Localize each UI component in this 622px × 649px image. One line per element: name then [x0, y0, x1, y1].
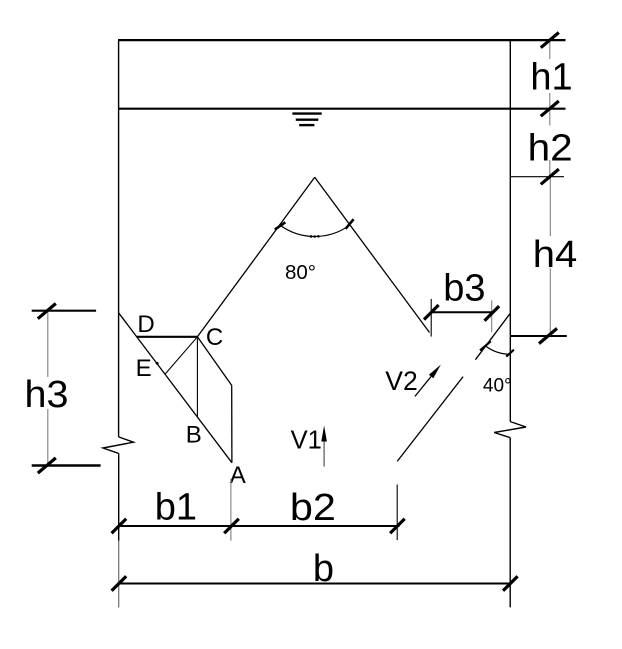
water surface symbol bar 2 — [296, 118, 319, 120]
arc 40 tick lower — [506, 350, 514, 357]
angle arc 40 deg — [486, 346, 510, 354]
velocity arrow V1 shaft — [323, 440, 325, 467]
svg-text:b1: b1 — [155, 486, 197, 528]
b3 left extension line — [430, 299, 432, 337]
svg-text:b2: b2 — [290, 487, 336, 529]
left wall lowest extension (grey) — [118, 541, 120, 608]
dimension line h3 (lower part) — [47, 409, 49, 465]
dimension line h1 (upper part) — [549, 40, 551, 59]
arc dots — [310, 235, 313, 238]
dimension line h3 (upper part) — [47, 311, 49, 377]
svg-text:A: A — [230, 462, 246, 489]
arc tick left — [275, 222, 286, 229]
dimension line b — [119, 583, 510, 585]
velocity arrow V2 head — [429, 365, 441, 379]
svg-text:C: C — [206, 324, 223, 351]
level line at crest height (h4 bottom boundary) — [510, 335, 567, 337]
tank top line — [118, 39, 566, 41]
line C-B — [196, 337, 198, 417]
crest line D-C — [137, 336, 198, 338]
right slope lower segment — [397, 377, 463, 462]
svg-text:h3: h3 — [25, 374, 69, 416]
tick at b1-b2 joint — [224, 519, 239, 534]
dimension line h1-h2 (mid part) — [549, 93, 551, 126]
tick at water level — [541, 101, 559, 116]
line C-E — [165, 337, 197, 374]
dimension line h2 (lower part) — [549, 160, 551, 177]
svg-text:V1: V1 — [291, 427, 322, 455]
arc 40 tick upper — [480, 341, 491, 350]
tick at b right — [503, 576, 518, 591]
svg-text:h2: h2 — [528, 127, 573, 169]
right wall lower extension — [509, 438, 511, 608]
water surface symbol bar 1 — [292, 112, 321, 114]
svg-text:E: E — [136, 355, 152, 382]
arc tick right — [346, 219, 354, 229]
tick at h3 bottom — [38, 458, 56, 473]
svg-text:h1: h1 — [530, 56, 572, 98]
right wall break symbol — [494, 422, 526, 438]
tick at b2 right — [390, 519, 405, 534]
tick at b3 left — [424, 305, 439, 320]
left slope line D-E-B-A — [119, 313, 232, 463]
dimension line b1-b2 — [119, 525, 400, 527]
tick at b1 left — [112, 519, 127, 534]
tick at b3 right — [485, 306, 500, 321]
dimension line h4 (lower part) — [549, 268, 551, 336]
svg-text:40°: 40° — [483, 376, 512, 397]
tick at crest level — [539, 328, 557, 343]
b3 right extension line — [491, 300, 493, 332]
tick at top line level — [541, 33, 559, 48]
h3 bottom boundary line — [32, 464, 101, 466]
notch apex right side (apex to V bottom) — [315, 177, 430, 332]
line C to plate corner — [197, 337, 231, 386]
water surface line — [118, 108, 566, 110]
svg-text:h4: h4 — [533, 234, 578, 276]
right slope upper segment — [475, 313, 510, 360]
svg-text:B: B — [186, 421, 202, 448]
angle arc 80 deg — [280, 225, 350, 237]
svg-text:b3: b3 — [443, 268, 485, 310]
extension line below A — [230, 479, 232, 541]
left wall upper — [118, 40, 120, 437]
svg-text:D: D — [137, 311, 154, 338]
svg-text:V2: V2 — [385, 366, 417, 396]
svg-text:b: b — [313, 548, 334, 590]
left wall lower extension — [118, 453, 120, 540]
tick at apex level — [541, 169, 559, 184]
water surface symbol bar 3 — [299, 124, 314, 126]
right wall upper — [509, 40, 511, 422]
plate right edge vertical to A — [231, 385, 233, 462]
velocity arrow V2 shaft — [415, 377, 431, 397]
left wall break symbol — [103, 437, 133, 453]
velocity arrow V1 head — [321, 426, 327, 442]
tick at b left — [112, 576, 127, 591]
level line at apex height (h2 bottom boundary) — [510, 176, 564, 178]
notch apex left side (apex to C) — [197, 177, 314, 336]
extension line below right slope — [396, 485, 398, 541]
tick at h3 top — [38, 304, 56, 319]
h3 top boundary line — [32, 310, 96, 312]
svg-text:80°: 80° — [285, 261, 316, 284]
dimension line b3 — [431, 311, 492, 313]
dimension line h4 (upper part) — [549, 177, 551, 236]
dot near E — [156, 362, 159, 365]
